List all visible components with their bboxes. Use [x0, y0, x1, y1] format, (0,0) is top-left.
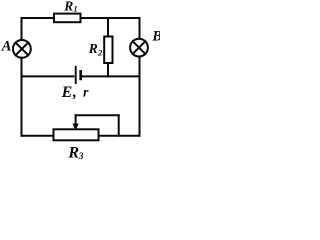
resistor R2	[104, 37, 112, 64]
rheostat R3	[54, 129, 99, 140]
lamp B	[130, 39, 148, 57]
resistor R1	[54, 14, 81, 23]
wire left upper	[21, 18, 23, 40]
wire R2 branch lower	[107, 63, 109, 76]
svg-text:R: R	[63, 0, 73, 13]
wire wiper down to bottom	[118, 115, 120, 136]
svg-text:3: 3	[78, 152, 84, 159]
label R1	[63, 0, 77, 14]
svg-text:R: R	[88, 41, 98, 56]
battery E,r plate short	[79, 72, 82, 79]
svg-text:B: B	[151, 29, 160, 45]
wire top-right segment	[81, 17, 140, 19]
svg-text:,: ,	[72, 84, 77, 101]
wire left lower	[21, 58, 23, 136]
label A	[1, 38, 12, 54]
svg-text:r: r	[83, 86, 89, 101]
svg-text:1: 1	[73, 4, 77, 14]
wire R2 branch upper	[107, 18, 109, 37]
svg-text:A: A	[1, 38, 12, 54]
svg-text:2: 2	[97, 48, 103, 58]
wire bottom left segment	[22, 135, 54, 137]
wire top-left segment	[22, 17, 55, 19]
lamp A	[13, 40, 31, 58]
wire wiper horizontal	[76, 114, 119, 116]
svg-text:R: R	[67, 145, 79, 159]
label R2	[88, 41, 103, 58]
wire bottom right segment	[99, 135, 140, 137]
wire middle right segment	[82, 75, 140, 77]
label B	[151, 29, 162, 45]
svg-text:E: E	[61, 84, 73, 101]
wiper arrow of R3	[73, 115, 78, 129]
wire right lower	[139, 57, 141, 136]
label R3	[67, 145, 83, 162]
label E, r	[61, 84, 89, 101]
battery E,r plate long	[75, 67, 77, 83]
wire right upper	[139, 18, 141, 39]
wire middle left segment	[22, 75, 74, 77]
